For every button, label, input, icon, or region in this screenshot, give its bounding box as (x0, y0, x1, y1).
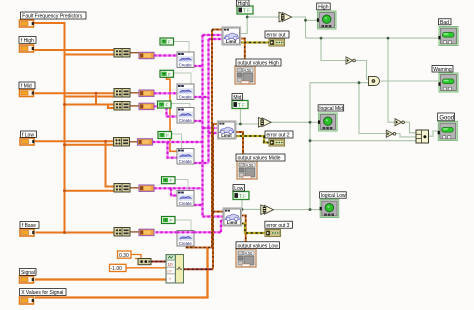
svg-text:output values High: output values High (238, 61, 280, 67)
svg-text:Bad: Bad (440, 20, 449, 26)
svg-text:-1.00: -1.00 (111, 266, 123, 272)
svg-text:logical Low: logical Low (321, 193, 346, 199)
svg-text:f Mid: f Mid (21, 84, 32, 90)
svg-text:0.30: 0.30 (119, 253, 129, 259)
svg-text:Signal: Signal (21, 270, 35, 276)
svg-text:error out 2: error out 2 (267, 133, 290, 139)
svg-text:output values Midle: output values Midle (238, 156, 281, 162)
svg-text:f Low: f Low (22, 132, 34, 138)
svg-text:logical Mid: logical Mid (319, 106, 343, 112)
svg-text:error out 3: error out 3 (266, 223, 289, 229)
svg-text:Low: Low (234, 186, 244, 192)
svg-text:Good: Good (439, 115, 454, 121)
svg-text:High: High (318, 5, 329, 11)
svg-text:f Base: f Base (22, 223, 36, 229)
svg-text:output values Low: output values Low (238, 243, 279, 249)
svg-text:dY: dY (167, 268, 172, 273)
svg-text:error out: error out (267, 33, 287, 39)
svg-text:X Values for Signal: X Values for Signal (21, 290, 63, 296)
svg-text:Y: Y (169, 276, 172, 281)
svg-text:Warning: Warning (433, 67, 452, 73)
svg-text:10: 10 (168, 262, 174, 267)
svg-text:f High: f High (21, 38, 34, 44)
svg-text:High: High (238, 1, 249, 7)
svg-text:Fault Frequency Predictors: Fault Frequency Predictors (22, 14, 83, 20)
svg-text:Mid: Mid (233, 95, 241, 101)
